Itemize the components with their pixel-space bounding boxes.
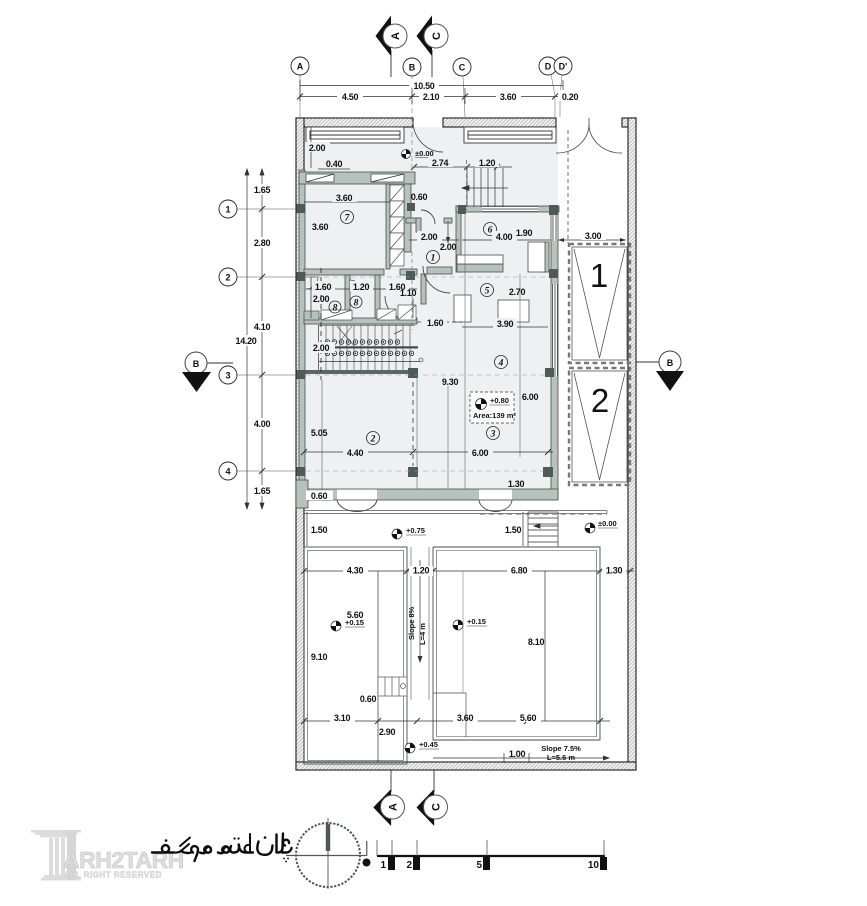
dims 3.10 3.60 5.60: [301, 712, 610, 724]
svg-text:1.50: 1.50: [505, 525, 522, 535]
column post A1: [297, 204, 306, 213]
svg-text:1.65: 1.65: [254, 486, 271, 496]
svg-text:1.00: 1.00: [509, 749, 526, 759]
wall room7 bottom: [304, 269, 384, 275]
node grid bubble 3: [219, 366, 298, 384]
stair tread number circles row 1: [325, 340, 400, 345]
opening bottom wall 2: [479, 490, 512, 500]
fixture room5 mid: [498, 300, 529, 322]
svg-text:9.10: 9.10: [311, 652, 328, 662]
section flag A bottom: [373, 770, 404, 826]
wire site wall top-mid segment: [443, 118, 556, 127]
svg-text:1.65: 1.65: [254, 185, 271, 195]
wall entry stub small: [444, 218, 452, 223]
svg-text:1: 1: [225, 205, 230, 215]
svg-text:ARH2TARH: ARH2TARH: [63, 847, 184, 873]
svg-text:6: 6: [488, 226, 493, 236]
north symbol circle: [286, 818, 366, 889]
column post D2: [549, 269, 558, 278]
svg-text:1.10: 1.10: [400, 288, 417, 298]
wire site wall top-left segment: [296, 118, 413, 127]
benchmark BM +0.80 area box: [470, 392, 516, 423]
wire room divider 2/3: [416, 378, 418, 489]
svg-text:D': D': [559, 62, 568, 72]
planter left block: [304, 547, 407, 764]
node grid bubble A: [291, 57, 309, 117]
wall closet room6 band: [457, 264, 503, 272]
svg-text:10: 10: [588, 860, 600, 871]
svg-text:+0.45: +0.45: [419, 740, 438, 749]
persian title: tabaghe word: [218, 834, 253, 853]
section flag B left: [182, 352, 233, 392]
logo pillar icon: [31, 830, 81, 881]
wall rooms8 divider 2: [375, 275, 380, 318]
window right wall 2 (curtain): [552, 284, 558, 376]
window room6 top glazing: [482, 206, 538, 212]
wire grid row2 dashed: [306, 276, 549, 278]
node grid bubble D': [554, 57, 572, 117]
dim 4.00 room6: [462, 228, 551, 242]
svg-text:A: A: [390, 32, 402, 40]
dim 1.50 right: [505, 512, 523, 546]
wire site wall right: [628, 118, 636, 770]
svg-text:D: D: [545, 62, 552, 72]
svg-text:1.50: 1.50: [311, 525, 328, 535]
wire dashed guide parking left edge: [567, 130, 569, 243]
column post B3: [408, 368, 418, 378]
column post B-top: [407, 203, 415, 211]
svg-text:1.60: 1.60: [427, 318, 444, 328]
node grid bubble B: [403, 58, 421, 168]
room label 4: [495, 356, 508, 369]
wall rooms8 bottom: [304, 318, 417, 324]
svg-text:9.30: 9.30: [442, 377, 459, 387]
room label 2: [367, 432, 380, 445]
svg-text:4: 4: [225, 467, 230, 477]
svg-text:2.00: 2.00: [421, 232, 438, 242]
svg-text:B: B: [193, 359, 200, 369]
svg-text:1: 1: [380, 860, 386, 871]
wall building left: [299, 170, 305, 508]
dim 4.40 / 6.00 bottom: [301, 380, 553, 490]
svg-text:4.30: 4.30: [347, 566, 364, 576]
scale bar: [363, 840, 608, 871]
wall building right: [551, 206, 558, 497]
svg-text:3.60: 3.60: [457, 713, 474, 723]
svg-text:2.70: 2.70: [509, 287, 526, 297]
door arc main gate: [413, 121, 443, 152]
door arc entry small: [421, 210, 435, 224]
svg-text:B: B: [409, 63, 416, 73]
dim 0.40: [318, 159, 350, 169]
dim 2.80: [251, 237, 274, 248]
svg-text:1.20: 1.20: [413, 566, 430, 576]
dim 4.10: [251, 321, 274, 332]
dim 2.90: [378, 721, 395, 762]
svg-text:2.00: 2.00: [440, 242, 457, 252]
door double-arc terrace 2: [479, 500, 512, 512]
svg-text:3: 3: [490, 430, 496, 440]
wire site wall top-right segment: [622, 118, 636, 127]
svg-text:2.00: 2.00: [313, 294, 330, 304]
svg-text:Slope 8%: Slope 8%: [407, 606, 416, 640]
svg-text:5.05: 5.05: [311, 428, 328, 438]
dims top of yard 4.30 1.20 6.80 1.30: [301, 566, 634, 577]
room label 3: [487, 427, 500, 440]
svg-text:±0.00: ±0.00: [598, 519, 617, 528]
wall building bottom: [299, 489, 558, 500]
svg-text:4.00: 4.00: [254, 419, 271, 429]
svg-text:14.20: 14.20: [235, 336, 256, 346]
ramp slope text: [407, 606, 427, 645]
stair winder treads room7: [390, 185, 404, 266]
dim 14.20: [233, 335, 260, 346]
svg-text:3: 3: [225, 371, 230, 381]
svg-text:0.60: 0.60: [360, 694, 377, 704]
small steps connector: [378, 677, 407, 696]
svg-text:2: 2: [591, 382, 609, 419]
dim 2.00 entry vertical: [440, 221, 457, 252]
svg-text:L=4 m: L=4 m: [418, 623, 427, 645]
svg-text:0.20: 0.20: [562, 92, 579, 102]
wire grid row4 dashed: [306, 470, 543, 472]
stair terrace steps: [528, 512, 558, 547]
svg-text:5: 5: [476, 860, 482, 871]
terrace edge lines: [304, 511, 607, 515]
door arc rooms8 left: [306, 277, 318, 289]
svg-text:+0.80: +0.80: [490, 396, 509, 405]
window room7 top 1: [306, 174, 334, 182]
svg-text:1.20: 1.20: [479, 158, 496, 168]
wall room7 bottom right piece: [400, 269, 417, 275]
svg-text:8: 8: [333, 304, 338, 314]
svg-text:A: A: [297, 62, 304, 72]
svg-text:2.74: 2.74: [432, 158, 449, 168]
node grid bubble D: [539, 57, 557, 117]
planter right block: [433, 547, 600, 740]
benchmark BM +0.15 left: [331, 618, 365, 631]
room label 7: [341, 211, 354, 224]
wire dim line 9.30 vertical: [447, 386, 449, 489]
ramp2 arrow bottom: [433, 744, 610, 763]
svg-text:4: 4: [498, 359, 504, 369]
dim 2.00 entry: [409, 231, 459, 242]
dim 1.60 1.20 1.60 rooms8: [306, 281, 417, 292]
column post A4: [297, 467, 306, 476]
persian title: hamkaf word: [152, 838, 211, 862]
benchmark BM +0.75: [392, 526, 426, 539]
ramp arrow: [418, 560, 423, 663]
svg-text:B: B: [667, 358, 674, 368]
dim 10.50: [300, 79, 563, 101]
benchmark BM0: [402, 149, 438, 159]
dim 1.50 left: [307, 512, 327, 546]
svg-text:4.40: 4.40: [347, 448, 364, 458]
svg-text:1: 1: [431, 254, 436, 264]
svg-text:2.80: 2.80: [254, 238, 271, 248]
door double-arc right gate: [556, 118, 589, 153]
wall room6 left: [456, 206, 461, 272]
svg-text:1.90: 1.90: [516, 228, 533, 238]
benchmark BM +0.00: [585, 519, 618, 533]
section flag B right: [636, 351, 684, 391]
svg-text:0.40: 0.40: [326, 159, 343, 169]
column post room6 right: [549, 205, 558, 215]
dim column 14.20 line: [245, 169, 265, 509]
room label 8a: [329, 301, 341, 314]
wall stub entry: [406, 218, 420, 223]
dim 4.00: [251, 418, 274, 429]
svg-text:1.30: 1.30: [606, 566, 623, 576]
stair main flight rails: [305, 325, 420, 374]
wall bottom-left pier: [296, 480, 308, 508]
column post D3: [545, 368, 554, 377]
svg-text:2.00: 2.00: [309, 143, 326, 153]
column post B4: [408, 467, 418, 477]
opening bottom wall 1: [337, 490, 377, 500]
column post A3: [297, 370, 306, 379]
svg-text:3.90: 3.90: [497, 319, 514, 329]
dim 8.10: [528, 571, 545, 721]
dim 2.00 front yard: [305, 127, 330, 168]
node grid bubble 4: [219, 462, 298, 480]
door arc rooms8 mid: [350, 280, 361, 291]
svg-text:2.00: 2.00: [313, 343, 330, 353]
svg-text:8: 8: [354, 299, 359, 309]
node grid bubble C: [453, 58, 471, 117]
parking stall 2: [569, 368, 630, 485]
svg-text:5.60: 5.60: [520, 713, 537, 723]
dim 2.00 rooms8 vert: [311, 277, 329, 318]
svg-text:3.60: 3.60: [312, 222, 329, 232]
stair entry top treads: [462, 160, 508, 210]
dim 1.60 hall: [417, 317, 462, 328]
room label 6: [484, 223, 497, 236]
svg-text:1: 1: [590, 257, 608, 294]
wall stair right: [404, 184, 411, 252]
fixture room5 left: [454, 295, 471, 322]
wire grid C line inside: [464, 212, 466, 489]
wire site wall left: [296, 118, 304, 770]
window right wall 1: [552, 215, 558, 241]
svg-text:2.10: 2.10: [423, 92, 440, 102]
closet room6 bottom: [457, 255, 503, 264]
room label 8b: [350, 296, 362, 309]
svg-text:3.00: 3.00: [585, 231, 602, 241]
wire right block notch: [433, 571, 466, 737]
dim 5.60 left vert: [347, 571, 378, 721]
door double-arc terrace 1: [337, 500, 377, 512]
closet room6 right: [528, 242, 545, 272]
window room7 top 2: [371, 174, 404, 182]
room label 5: [481, 284, 494, 297]
svg-text:0.60: 0.60: [311, 491, 328, 501]
svg-text:L=5.6 m: L=5.6 m: [547, 753, 575, 762]
stair tread number circles row 2: [325, 351, 423, 362]
svg-text:6.00: 6.00: [472, 448, 489, 458]
dim 1.10: [400, 288, 417, 318]
node grid bubble 1: [219, 200, 298, 218]
svg-text:5: 5: [485, 287, 490, 297]
svg-text:2: 2: [406, 860, 412, 871]
benchmark BM +0.45: [405, 740, 439, 753]
wall stub entry vertical: [416, 218, 421, 232]
dim 1.65 (top): [251, 184, 274, 195]
svg-text:ALL RIGHT RESERVED: ALL RIGHT RESERVED: [64, 871, 162, 880]
persian title: plan word: [257, 834, 291, 862]
svg-text:1.60: 1.60: [315, 282, 332, 292]
svg-text:4.00: 4.00: [496, 232, 513, 242]
svg-text:Area:139 m²: Area:139 m²: [473, 411, 516, 420]
dim 1.65 (bottom): [251, 485, 274, 496]
window W-top-1: [306, 127, 404, 143]
wall closet room6 right band: [543, 242, 549, 272]
wall stair left: [386, 184, 390, 269]
svg-text:10.50: 10.50: [413, 81, 434, 91]
column post A2: [297, 272, 306, 281]
benchmark BM +0.15 right: [453, 617, 487, 630]
floor fill main building: [304, 127, 558, 497]
column post B2: [406, 271, 415, 280]
stair fixtures rooms8: [304, 305, 416, 320]
door arc room7: [385, 296, 406, 319]
svg-text:0.60: 0.60: [411, 192, 428, 202]
svg-text:6.80: 6.80: [511, 566, 528, 576]
window W-top-2: [464, 127, 556, 143]
svg-text:Slope 7.5%: Slope 7.5%: [541, 744, 581, 753]
dim 2.74 + 1.20: [411, 157, 512, 170]
dim 3.90: [462, 318, 548, 329]
svg-text:1.20: 1.20: [353, 282, 370, 292]
svg-text:A: A: [388, 803, 400, 811]
wire site wall bottom: [296, 762, 636, 770]
svg-text:1.30: 1.30: [508, 479, 525, 489]
svg-text:2.90: 2.90: [379, 727, 396, 737]
dim 2.00 stair: [308, 342, 335, 353]
svg-text:3.60: 3.60: [500, 92, 517, 102]
svg-text:3.60: 3.60: [336, 193, 353, 203]
svg-text:8.10: 8.10: [528, 637, 545, 647]
svg-text:C: C: [431, 32, 443, 40]
svg-text:C: C: [431, 803, 443, 811]
ramp corridor lines: [411, 547, 429, 700]
svg-text:2: 2: [370, 435, 376, 445]
svg-text:+0.75: +0.75: [406, 526, 425, 535]
stair main flight risers: [321, 268, 410, 380]
dim 4.50 / 2.10 / 3.60 / 0.20: [297, 88, 583, 104]
section flag C bottom: [417, 770, 448, 826]
wall hall vertical stub: [421, 274, 426, 304]
svg-text:±0.00: ±0.00: [415, 149, 434, 158]
dim 0.60 bottom: [306, 491, 333, 502]
svg-text:2: 2: [225, 273, 230, 283]
room label 1: [427, 251, 440, 264]
svg-text:3.10: 3.10: [334, 713, 351, 723]
svg-text:+0.15: +0.15: [345, 618, 364, 627]
column post room6 left: [458, 205, 466, 214]
svg-text:6.00: 6.00: [522, 392, 539, 402]
section flag A top: [376, 16, 408, 78]
svg-text:+0.15: +0.15: [467, 617, 486, 626]
door arc entry hall: [423, 266, 450, 293]
wall hall band: [427, 267, 452, 274]
node grid bubble 2: [219, 268, 298, 286]
svg-text:4.50: 4.50: [342, 92, 359, 102]
wall rooms8 divider 1: [345, 275, 350, 318]
wall building top: [299, 172, 415, 184]
dim 3.00 parking: [558, 230, 626, 242]
svg-text:C: C: [459, 63, 466, 73]
wall room6 top: [456, 206, 559, 212]
wire dim line 6.00 vertical: [519, 274, 521, 457]
section flag C top: [417, 16, 449, 78]
svg-text:4.10: 4.10: [254, 322, 271, 332]
dim 3.60 horiz room7: [304, 192, 390, 203]
wire grid B dashed in stair: [411, 252, 413, 330]
wire grid row3 dashed: [306, 374, 545, 376]
column post D4: [543, 467, 553, 477]
parking stall 1: [569, 244, 630, 363]
